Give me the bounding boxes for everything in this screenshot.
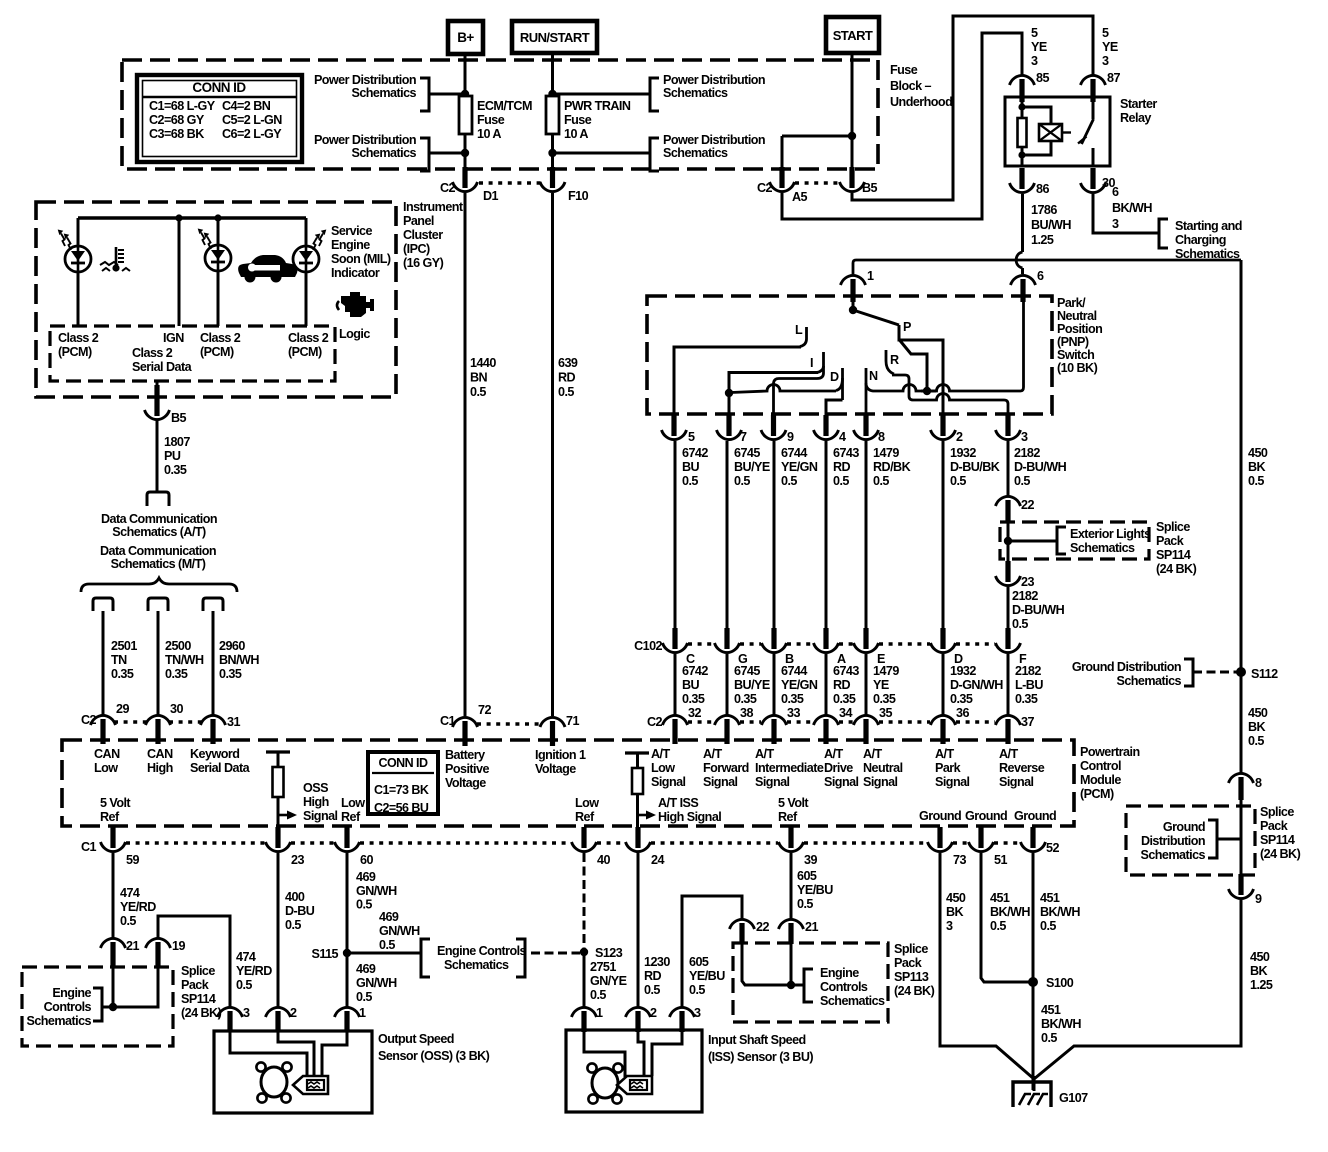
svg-text:Splice: Splice [894,942,928,956]
svg-text:S115: S115 [311,947,338,961]
connector PNP pin 4 [823,415,828,436]
OSS gear icon [261,1067,287,1097]
svg-text:59: 59 [126,853,139,867]
svg-text:SP114: SP114 [181,992,216,1006]
wire 1807 PU to data comm reference [156,420,159,492]
wire ISS pin1 to sensor tip [584,1030,625,1077]
svg-text:C2: C2 [757,181,773,195]
svg-text:Power Distribution: Power Distribution [314,133,416,147]
svg-text:Data Communication: Data Communication [101,512,217,526]
connector C1 pin 59 [110,827,115,848]
node D wire junction [725,389,733,397]
svg-text:BK: BK [946,905,964,919]
connector C1 pin 72 [462,721,467,746]
svg-text:Cluster: Cluster [403,228,443,242]
connector pin A5 [779,167,784,188]
svg-text:BK/WH: BK/WH [1112,201,1152,215]
svg-text:GN/WH: GN/WH [379,924,420,938]
connector PNP pin 6 [1020,279,1025,302]
connector C2 pin 36 [940,719,945,744]
svg-text:S123: S123 [595,946,623,960]
svg-text:Ground: Ground [1014,809,1056,823]
svg-text:2960: 2960 [219,639,245,653]
svg-text:C2: C2 [647,715,663,729]
svg-text:Power Distribution: Power Distribution [314,73,416,87]
reference Data Communication Schematics (A/T) [147,492,169,506]
svg-text:S112: S112 [1251,667,1278,681]
svg-text:2: 2 [650,1006,657,1020]
svg-text:Fuse: Fuse [890,63,918,77]
wire I to pin 7 [729,373,818,417]
svg-text:Schematics (A/T): Schematics (A/T) [112,525,206,539]
svg-text:10 A: 10 A [477,127,501,141]
wires PNP pins down to C102 [674,441,677,629]
svg-text:86: 86 [1036,182,1049,196]
wire PNP pin1 to right ground rail [853,260,1241,274]
connector pin 8 [1238,777,1243,800]
wire RUN/START down [551,53,554,96]
wire PWR TRAIN fuse top to bracket [552,93,650,96]
svg-text:0.5: 0.5 [379,938,395,952]
svg-text:2751: 2751 [590,960,616,974]
wires C102 down to C2 [674,654,677,716]
svg-text:A/T: A/T [755,747,774,761]
svg-text:ECM/TCM: ECM/TCM [477,99,532,113]
svg-text:Park: Park [935,761,962,775]
svg-text:B5: B5 [862,181,878,195]
svg-text:0.35: 0.35 [165,667,188,681]
svg-text:605: 605 [797,869,817,883]
node MIL lamp branch [214,214,221,221]
svg-text:A/T: A/T [935,747,954,761]
connector PNP pin 8 [863,415,868,436]
svg-text:High Signal: High Signal [658,810,721,824]
svg-text:YE/BU: YE/BU [689,969,725,983]
svg-text:400: 400 [285,890,305,904]
wire 639 RD to PCM [551,193,554,716]
svg-text:451: 451 [1041,1003,1061,1017]
svg-text:6745: 6745 [734,664,760,678]
wire 2960 BN/WH [212,611,215,715]
svg-text:Class 2: Class 2 [200,331,241,345]
svg-text:Serial Data: Serial Data [132,360,193,374]
svg-text:Power Distribution: Power Distribution [663,73,765,87]
connector C2 pin 35 [863,719,868,744]
svg-text:469: 469 [356,962,376,976]
svg-text:87: 87 [1107,71,1120,85]
wire pin3 to connector 22 [1007,441,1010,496]
node splice S115 [343,949,351,957]
svg-text:51: 51 [994,853,1007,867]
connector C102 pin C [672,628,677,649]
wire class2 serial data out of IPC [156,381,159,390]
svg-text:1932: 1932 [950,446,976,460]
wire bracket to ECM/TCM fuse bottom [429,152,465,155]
svg-text:A/T: A/T [863,747,882,761]
svg-text:D-BU: D-BU [285,904,315,918]
connector C1 pin 39 [788,827,793,848]
wire 22 jumper to ISS pin 3 [682,896,742,1007]
wire 450 BK pin 73 to G107 [940,853,1034,1079]
svg-text:Voltage: Voltage [445,776,486,790]
svg-text:Relay: Relay [1120,111,1151,125]
svg-text:Service: Service [331,224,373,238]
svg-text:Power Distribution: Power Distribution [663,133,765,147]
svg-text:Starter: Starter [1120,97,1157,111]
svg-text:BU: BU [682,678,700,692]
svg-text:(IPC): (IPC) [403,242,430,256]
svg-text:(PCM): (PCM) [1080,787,1114,801]
connector pin 21 SP113 [788,923,793,944]
svg-text:GN/WH: GN/WH [356,884,397,898]
svg-text:C6=2 L-GY: C6=2 L-GY [222,127,282,141]
svg-text:Neutral: Neutral [863,761,903,775]
svg-text:Ref: Ref [100,810,120,824]
svg-text:C1=68 L-GY: C1=68 L-GY [149,99,216,113]
svg-text:2182: 2182 [1012,589,1038,603]
wire pin19 jumper to OSS pin3 [158,916,230,1007]
svg-text:C4=2 BN: C4=2 BN [222,99,271,113]
svg-text:R: R [890,353,899,367]
svg-text:P: P [903,320,911,334]
svg-text:0.35: 0.35 [219,667,242,681]
svg-text:52: 52 [1046,841,1059,855]
svg-text:60: 60 [360,853,373,867]
connector pin 9 [1238,874,1243,895]
dashed wire from pin 40 to S123 [583,853,586,948]
icon coolant thermometer [115,247,118,266]
connector C2 pin D1 [462,167,467,188]
wire 450 BK 1.25 to G107 [1034,900,1241,1079]
svg-text:Exterior Lights: Exterior Lights [1070,527,1151,541]
svg-text:YE/GN: YE/GN [781,678,818,692]
svg-text:6745: 6745 [734,446,760,460]
wire bracket to ECM/TCM fuse top [429,93,465,96]
wire 2501 TN [102,611,105,715]
svg-text:32: 32 [688,706,701,720]
wire 451 BK/WH pin 52 to G107 [1032,853,1035,1090]
connector ISS pin 2 [635,1011,640,1032]
reference Engine Controls Schematics middle [421,939,430,977]
svg-text:Positive: Positive [445,762,489,776]
svg-text:450: 450 [1248,446,1268,460]
svg-text:RD/BK: RD/BK [873,460,911,474]
svg-text:B5: B5 [171,411,187,425]
svg-text:0.5: 0.5 [950,474,966,488]
svg-text:1786: 1786 [1031,203,1057,217]
svg-text:1.25: 1.25 [1031,233,1054,247]
connector strip dotted 72-71 [477,722,541,726]
svg-text:RUN/START: RUN/START [520,30,590,45]
connector pin 22 [1005,500,1010,521]
svg-text:Engine: Engine [52,986,91,1000]
PCM internal resistor OSS [266,750,290,753]
svg-text:450: 450 [1250,950,1270,964]
svg-text:D: D [830,370,839,384]
svg-text:6742: 6742 [682,446,708,460]
svg-text:0.5: 0.5 [558,385,574,399]
svg-text:C102: C102 [634,639,662,653]
svg-text:0.5: 0.5 [797,897,813,911]
svg-text:C1: C1 [440,714,456,728]
relay switch [1092,97,1095,119]
svg-text:Signal: Signal [824,775,859,789]
svg-text:23: 23 [291,853,304,867]
wire 2500 TN/WH [157,611,160,715]
svg-text:GN/WH: GN/WH [356,976,397,990]
svg-text:Pack: Pack [894,956,923,970]
fuse PWR TRAIN 10A [546,96,559,134]
svg-text:SP113: SP113 [894,970,929,984]
connector relay pin 87 [1090,79,1095,102]
svg-text:72: 72 [478,703,491,717]
svg-text:C3=68 BK: C3=68 BK [149,127,204,141]
svg-text:Schematics: Schematics [444,958,509,972]
svg-text:0.5: 0.5 [1012,617,1028,631]
wire 469 GN/WH from pin 60 [346,853,349,1007]
svg-text:B+: B+ [457,30,474,45]
reference Engine Controls Schematics left [102,1006,113,1009]
connector pin 23 [1005,561,1010,582]
svg-text:BU/YE: BU/YE [734,678,770,692]
svg-text:Serial Data: Serial Data [190,761,251,775]
wire 1440 BN to PCM [464,193,467,716]
output speed sensor box [214,1031,372,1113]
svg-text:(24 BK): (24 BK) [1156,562,1197,576]
reference terminal CAN High [148,598,168,611]
svg-text:Distribution: Distribution [1141,834,1205,848]
node P branch junction [923,387,931,395]
svg-text:START: START [833,28,873,43]
connector C2 pin 31 [210,719,215,744]
wire tap to bracket [1008,540,1057,543]
svg-text:Ground Distribution: Ground Distribution [1072,660,1181,674]
svg-text:0.35: 0.35 [873,692,896,706]
svg-text:40: 40 [597,853,610,867]
svg-text:CAN: CAN [94,747,120,761]
wire 605 YE/BU from pin 39 [790,853,793,919]
wire R to pin 3 with hop over pin2 wire [892,375,1008,416]
svg-text:A/T ISS: A/T ISS [658,796,698,810]
connector C102 pin E [863,628,868,649]
svg-text:0.5: 0.5 [644,983,660,997]
svg-text:0.5: 0.5 [120,914,136,928]
icon engine (logic) [341,292,374,317]
connector strip dotted 29-31 [114,720,147,724]
arrow OSS high signal [278,814,288,817]
svg-text:BK: BK [1250,964,1268,978]
svg-text:YE: YE [873,678,889,692]
svg-text:73: 73 [953,853,966,867]
connector C2 pin 34 [823,719,828,744]
svg-text:OSS: OSS [303,781,328,795]
svg-text:(24 BK): (24 BK) [894,984,935,998]
wire 1230 RD from pin 24 [637,853,640,1007]
svg-text:30: 30 [170,702,183,716]
splice pack SP114 box right [1126,806,1255,875]
svg-text:23: 23 [1021,575,1034,589]
svg-text:2182: 2182 [1015,664,1041,678]
wire OSS pin3 to sensor tip [230,1030,307,1077]
svg-text:474: 474 [236,950,256,964]
connector ISS pin 3 [679,1011,684,1032]
wire I second throw to pin 9 [774,366,824,416]
indicator lamp 1 (temp) [77,218,80,247]
svg-text:A5: A5 [792,190,808,204]
svg-text:Engine Controls: Engine Controls [437,944,527,958]
svg-text:Ignition 1: Ignition 1 [535,748,586,762]
svg-text:Position: Position [1057,322,1102,336]
svg-text:RD: RD [644,969,662,983]
svg-text:C1: C1 [81,840,97,854]
wire ISS pin2 to sensor [638,1030,644,1076]
svg-text:0.5: 0.5 [1041,1031,1057,1045]
svg-text:Keyword: Keyword [190,747,239,761]
svg-text:SP114: SP114 [1260,833,1295,847]
arrow A/T ISS high signal [638,814,648,817]
wire fuse to connector D1 [464,134,467,170]
connector C2 pin F10 [550,167,555,188]
ISS gear icon [592,1068,618,1098]
connector ISS pin 1 [581,1011,586,1032]
wire N to pin 8 [865,368,868,416]
connector pin 21 [110,942,115,968]
svg-text:2: 2 [956,430,963,444]
connector PNP pin 2 [940,415,945,436]
svg-text:G107: G107 [1059,1091,1088,1105]
icon car silhouette [238,255,297,277]
svg-text:1.25: 1.25 [1250,978,1273,992]
svg-text:Splice: Splice [1260,805,1294,819]
node fuse top junction [461,90,469,98]
B+ terminal box [448,21,483,54]
svg-text:Data Communication: Data Communication [100,544,216,558]
wire relay 86 down with hop over wire to pin 6 [1021,194,1024,252]
node fuse bottom junction [461,149,469,157]
svg-text:Class 2: Class 2 [58,331,99,345]
connector OSS pin 3 [227,1011,232,1032]
svg-text:CONN ID: CONN ID [192,80,246,95]
svg-text:Instrument: Instrument [403,200,464,214]
svg-text:3: 3 [1102,54,1109,68]
svg-text:Signal: Signal [651,775,686,789]
svg-text:6744: 6744 [781,446,807,460]
svg-text:Schematics: Schematics [351,146,416,160]
svg-text:PWR TRAIN: PWR TRAIN [564,99,631,113]
svg-text:0.5: 0.5 [285,918,301,932]
svg-text:6: 6 [1112,185,1119,199]
svg-text:6742: 6742 [682,664,708,678]
svg-text:1: 1 [596,1006,603,1020]
svg-text:2501: 2501 [111,639,137,653]
svg-text:451: 451 [1040,891,1060,905]
svg-text:Low: Low [575,796,599,810]
connector C102 pin G [724,628,729,649]
svg-text:C1=73 BK: C1=73 BK [374,783,429,797]
wire IPC top bus [78,216,306,220]
svg-text:6: 6 [1037,269,1044,283]
ISS pickup sensor icon [617,1076,652,1094]
svg-text:(PCM): (PCM) [288,345,322,359]
svg-text:8: 8 [1255,776,1262,790]
wire P contact branch to neutral bus [900,340,928,389]
svg-text:0.35: 0.35 [833,692,856,706]
svg-text:BN: BN [470,371,488,385]
connector PNP pin 1 [850,279,855,302]
reference Engine Controls Schematics SP113 [804,969,813,1002]
svg-text:4: 4 [839,430,846,444]
connector OSS pin 2 [275,1011,280,1032]
svg-text:BU: BU [682,460,700,474]
svg-text:Pack: Pack [1260,819,1289,833]
wire branch to A5 [782,135,852,138]
svg-text:GN/YE: GN/YE [590,974,627,988]
powertrain control module box [62,740,1074,826]
svg-text:(10 BK): (10 BK) [1057,361,1098,375]
connector C1 pin 52 [1030,827,1035,848]
svg-text:Signal: Signal [935,775,970,789]
CONN ID table fuse block [137,75,302,162]
connector PNP pin 7 [726,415,731,436]
svg-text:5: 5 [1102,26,1109,40]
wire ISS pin3 to sensor [652,1030,682,1076]
node splice SP114 junction [109,1003,117,1011]
svg-text:450: 450 [1248,706,1268,720]
CONN ID table PCM [368,752,438,814]
node splice S123 [580,948,588,956]
reference Starting and Charging Schematics [1159,219,1168,248]
svg-text:BK: BK [1248,460,1266,474]
ground G107 [1033,1076,1036,1091]
connector C2 pin 38 [724,719,729,744]
svg-text:Splice: Splice [181,964,215,978]
indicator lamp 2 (MIL) [217,218,220,245]
svg-text:YE/RD: YE/RD [236,964,272,978]
svg-text:21: 21 [126,939,139,953]
svg-text:Schematics (M/T): Schematics (M/T) [111,557,206,571]
svg-text:Schematics: Schematics [1116,674,1181,688]
svg-text:Block –: Block – [890,79,931,93]
wire junction to bracket [791,984,804,987]
wire P contact to pin2 [899,325,943,416]
PNP wiper arm to P [853,310,899,325]
svg-text:38: 38 [740,706,753,720]
svg-text:19: 19 [172,939,185,953]
connector strip dotted A5-B5 [795,181,840,185]
svg-text:Low: Low [651,761,675,775]
svg-text:YE/GN: YE/GN [781,460,818,474]
svg-text:C2=56 BU: C2=56 BU [374,801,429,815]
svg-text:Voltage: Voltage [535,762,576,776]
relay suppression diode branch [1022,107,1051,124]
svg-text:Switch: Switch [1057,348,1094,362]
svg-text:22: 22 [1021,498,1034,512]
svg-text:BK/WH: BK/WH [1040,905,1080,919]
svg-text:1: 1 [359,1006,366,1020]
connector C1 pin 24 [635,827,640,848]
input shaft speed sensor box [566,1030,702,1112]
wire START down with junction [851,53,854,170]
svg-text:0.35: 0.35 [734,692,757,706]
node exterior lights tap [1004,537,1012,545]
svg-text:Powertrain: Powertrain [1080,745,1140,759]
node splice S100 [1028,977,1038,987]
svg-text:Panel: Panel [403,214,434,228]
svg-text:2: 2 [290,1006,297,1020]
svg-text:Reverse: Reverse [999,761,1045,775]
wire 21 into splice [112,966,115,1007]
svg-text:Schematics: Schematics [351,86,416,100]
